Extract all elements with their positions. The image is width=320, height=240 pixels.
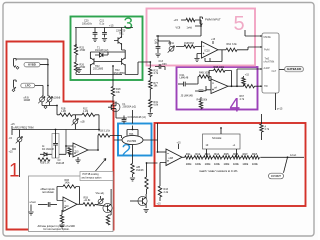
svg-text:KYBD: KYBD [28,63,36,67]
wire base stub [130,200,138,202]
svg-text:C15 1N4148 (x2): C15 1N4148 (x2) [128,116,147,119]
annotation box 4 (purple, shaper) [177,67,258,110]
svg-text:R18: R18 [252,152,257,156]
svg-text:MS/3E: MS/3E [264,36,272,39]
wire [132,174,134,177]
wire saw branch [237,69,261,86]
label R31 [154,101,159,107]
label R30 [154,82,159,88]
label vext [30,201,37,204]
label R9 [84,197,92,202]
wire pot merge [42,102,60,115]
diode D1 [95,53,108,57]
wire exit right [125,62,150,75]
wire cv tap [284,157,288,173]
label 4 [230,96,241,117]
svg-text:VC8: VC8 [176,26,181,29]
resistor R40 [260,124,270,132]
svg-text:R2B 1.5k: R2B 1.5k [40,162,50,164]
svg-text:+15: +15 [177,141,182,144]
wire pot feeds [42,96,50,97]
svg-text:2SC/5B3: 2SC/5B3 [127,141,137,143]
resistor R7 [60,210,63,224]
jack KYBD [14,59,19,70]
svg-text:PwM: PwM [264,48,269,51]
wire top entry [261,114,263,124]
wire +15 drop [276,93,283,110]
ground [44,106,47,109]
svg-text:+11.8k: +11.8k [84,200,92,202]
label FREQ TRIM [14,126,34,129]
resistor R9 [83,203,95,206]
resistor R10 [106,215,111,225]
resistor R25 [74,45,77,55]
label C15 [128,116,147,119]
wire collector [110,189,112,199]
label +15 [9,149,17,153]
svg-text:LM4148: LM4148 [180,77,189,80]
svg-text:OuT: OuT [272,70,277,73]
label 1 [9,161,20,182]
wire [176,46,202,48]
label R62 [199,71,210,74]
svg-text:100k: 100k [186,162,192,166]
wire aux [245,30,261,36]
wire [75,55,77,62]
resistor R5 [98,134,110,137]
svg-text:R1B 5.1/1k: R1B 5.1/1k [99,131,111,133]
wire down [19,152,21,177]
svg-text:not shown: not shown [42,190,55,194]
wire output [218,49,226,51]
svg-text:1: 1 [9,161,20,182]
svg-text:R17: R17 [243,152,248,156]
wire collector link [98,50,125,62]
svg-text:+15: +15 [174,18,179,22]
capacitor C40 [178,82,196,87]
potentiometer trim [72,115,85,130]
wire pwm drop [156,26,201,36]
wire output [77,203,83,205]
ground [102,39,107,42]
resistor R63b [214,69,226,72]
svg-text:4.7k: 4.7k [154,72,159,75]
resistor R43 [158,186,169,197]
svg-text:4.7k: 4.7k [265,128,270,131]
jack PWM input [200,17,202,26]
svg-text:470R: 470R [80,49,86,52]
svg-text:TRI: TRI [264,85,268,88]
label PWM INPUT [205,17,221,21]
option sub-box [29,176,114,232]
capacitor C13 [155,64,165,70]
transistor F1 jfet [108,102,120,114]
label IC11c [181,95,194,98]
label R63 [184,42,194,45]
wire feedback [205,50,222,62]
wire [149,89,151,100]
svg-text:LFO: LFO [25,84,30,88]
wire feedback [57,187,80,205]
wire +15 feed [174,18,187,22]
label R65 [197,98,208,101]
label offset note [41,187,56,194]
resistor R63 [184,45,195,48]
svg-text:R14: R14 [214,152,219,156]
svg-text:VR11: VR11 [168,42,175,45]
label R28 [116,88,121,94]
svg-text:R6B 100k: R6B 100k [214,66,225,69]
wire base link [90,52,125,55]
label TR1 [116,30,126,36]
svg-text:5: 5 [234,13,245,35]
capacitor C20 [93,28,98,38]
svg-text:CV OUT: CV OUT [271,174,281,178]
potentiometer VR1a [38,97,45,104]
label R63b [214,66,225,69]
capacitor C7B [156,36,161,53]
svg-text:100k: 100k [224,162,230,166]
pill GATE/LED [285,66,304,71]
resistor R2B [38,158,50,165]
resistor R17 [60,113,73,116]
label +15 node [11,123,16,130]
wire jfet to blue box [116,113,127,118]
svg-text:match “scale” resistors to 0.1: match “scale” resistors to 0.1% [199,169,238,173]
svg-text:uAuNT/8k: uAuNT/8k [264,60,275,63]
wire [73,114,83,116]
option label box [80,172,113,181]
jack LFO [12,80,16,92]
ground [76,67,81,73]
pill LFO [21,83,35,88]
capacitor C1B [48,202,57,207]
svg-text:Vbe adj.: Vbe adj. [96,192,105,195]
svg-text:1N4/48: 1N4/48 [136,170,144,172]
resistor R62 [196,75,211,84]
wire output [182,156,185,158]
op-amp IC11b [211,79,228,94]
label TR3 [113,69,125,75]
label R25 [80,46,86,52]
svg-text:3.3k: 3.3k [232,43,237,46]
wire +15 rail [75,24,133,28]
wire vr11 rail [158,41,170,46]
wire pair tail [132,145,134,164]
wire [157,197,162,205]
svg-text:100k: 100k [205,162,211,166]
wire minus in [66,130,73,147]
svg-text:uRR2 FREQ TRIM: uRR2 FREQ TRIM [14,126,34,129]
wire scale taps [207,128,237,157]
label MS/3E [264,36,272,39]
svg-text:100k: 100k [242,162,248,166]
resistor R66 [242,73,250,86]
pin [261,85,262,87]
label PWM [264,48,269,51]
svg-text:and tempco option: and tempco option [82,177,102,180]
svg-text:1N4148: 1N4148 [56,163,65,165]
potentiometer VR3 [97,196,104,205]
label D4 [42,146,54,151]
label 5 [234,13,245,35]
resistor R64 [226,43,237,52]
svg-text:1v/oct: 1v/oct [290,154,296,157]
wire lfo [35,86,43,97]
svg-text:+15: +15 [9,150,14,153]
wire from purple [132,110,134,124]
capacitor C1 boxed [52,134,59,159]
diode D4 [40,153,52,157]
annotation box 1 (red, expo converter) [7,42,114,230]
wire minus in [158,151,167,153]
annotation arrow [96,159,107,172]
label R48 [176,26,193,29]
label IC11 [180,74,189,80]
svg-text:+15: +15 [211,38,216,41]
label 2 [122,140,132,160]
panel connector box [262,33,279,93]
wire plus in [68,153,73,155]
resistor R8 [63,185,76,188]
ground [59,225,64,228]
op-amp IC1a [73,143,88,157]
wire [149,109,151,113]
svg-text:AuNP: AuNP [264,67,271,70]
label R67 [240,95,245,101]
resistor R3 [68,148,71,158]
wire [95,115,99,130]
wire main rail [12,129,99,131]
label C13 [159,60,164,63]
svg-text:100k: 100k [214,162,220,166]
label jumper note [38,224,76,231]
svg-text:y+15: y+15 [277,107,283,110]
label TR2 [93,65,104,71]
annotation box 3 (green, current source) [71,17,143,81]
label C7B [155,39,160,45]
resistor R48 [186,18,201,26]
svg-text:2: 2 [122,140,132,160]
potentiometer VR2 [16,130,23,153]
svg-text:R16: R16 [233,152,238,156]
wire input [38,204,48,206]
svg-text:2SC1685: 2SC1685 [93,68,104,71]
wire [261,132,263,140]
resistor R67 [244,85,255,88]
jack stub [28,205,33,216]
wire output [228,85,244,87]
svg-text:1n4d: 1n4d [187,26,193,29]
resistor R29 [149,68,152,76]
wire feedback [209,71,232,87]
pin [261,46,262,48]
svg-text:100kB: 100kB [24,100,31,102]
capacitor C21 [102,28,107,38]
resistors R11-R18 scale chain [185,156,260,159]
svg-text:2SK30A (x2): 2SK30A (x2) [123,106,137,109]
svg-text:100k: 100k [252,162,258,166]
wire divider chain [149,62,151,68]
svg-text:u100kB: u100kB [53,97,61,99]
label C63 [162,63,167,66]
label R26 [80,63,86,69]
svg-text:R13: R13 [205,152,210,156]
label +15 [211,38,216,44]
SCALE box [203,134,241,149]
label pots [24,97,61,102]
op-amp IC1b [63,197,77,212]
label R17 [61,109,66,114]
wire emitter chain [147,163,158,177]
svg-text:100k: 100k [195,162,201,166]
svg-text:IC10: IC10 [205,50,211,53]
svg-text:GATE/LED: GATE/LED [287,67,301,71]
capacitor C41 [195,86,206,92]
resistor R26 [74,62,77,72]
transistor TR2 [90,52,98,75]
op-amp IC12 [166,149,182,166]
label C3 [56,160,65,165]
svg-text:0.1u: 0.1u [100,22,105,25]
svg-text:D4 1N4148: D4 1N4148 [42,149,54,151]
ground [92,39,97,42]
wire plus in [160,163,166,171]
wire gate [279,69,285,71]
label R8 [65,180,71,185]
svg-text:100u/16v: 100u/16v [82,22,93,25]
svg-text:1M8 R63: 1M8 R63 [184,42,194,45]
svg-text:for non tempco option.: for non tempco option. [44,227,70,231]
wire to panel [237,47,261,50]
label TRI [264,85,268,88]
label TR6 [129,134,134,136]
svg-text:C63: C63 [162,63,167,66]
resistor R65 [199,97,202,110]
op-amp IC10 [202,42,219,59]
svg-text:470R: 470R [80,66,86,69]
annotation box 6 (red, scale network) [155,123,306,206]
pin [261,68,262,70]
svg-text:R15: R15 [224,152,229,156]
transistor TR3 [118,50,125,75]
label 3 [124,14,133,33]
wire [112,96,114,103]
resistor R31 [149,100,152,109]
ground [144,210,149,213]
transistor Q5 [138,194,147,208]
svg-text:uR.B: uR.B [24,97,30,99]
wire from green to JFET [112,66,114,87]
svg-text:R11: R11 [186,152,191,156]
resistor R28 [111,87,114,97]
svg-text:4.7k: 4.7k [240,98,245,101]
svg-text:PWM INPUT: PWM INPUT [205,17,221,21]
label C20 [82,20,93,26]
svg-text:uA: uA [214,87,217,90]
label R18b [83,109,88,114]
potentiometer VR11 [168,46,175,53]
resistor R20 [145,177,148,189]
label vbe [96,192,105,195]
svg-text:(2SC1685): (2SC1685) [113,72,125,75]
pin [261,35,262,37]
wire output [88,136,98,151]
label C21 [100,20,105,26]
annotation box 5 (pink, PWM) [147,9,256,66]
label +15 [177,141,182,149]
labels R11-R18 [186,152,258,156]
svg-text:R4B 100k: R4B 100k [197,98,208,101]
label VR11 [168,42,175,45]
wire plus chain [159,170,161,186]
label R5 [99,131,111,133]
wire pair sides [114,139,152,141]
capacitor C15 [122,116,127,124]
label AUNP [264,67,277,73]
wire to pair [110,136,122,139]
svg-text:u/1ext: u/1ext [30,201,37,204]
wire plus input [197,54,202,59]
transistor TR6 matched pair [122,135,143,144]
wire kybd [16,59,48,96]
pill KYBD [24,62,40,67]
values 100k x8 [186,162,259,166]
ground [194,59,199,62]
pill CV OUT [269,173,284,179]
potentiometer VR1b [46,97,53,104]
wire plus in [206,90,211,91]
annotation box 2 (blue, matched pair) [118,124,152,156]
label TWE [264,57,275,63]
svg-text:2.4k: 2.4k [164,191,169,194]
wire bottom rail [76,72,122,75]
svg-text:SCALE: SCALE [212,136,221,140]
svg-text:R12: R12 [195,152,200,156]
label D1 [95,46,108,52]
wire minus [57,200,63,202]
svg-text:+15: +15 [245,73,250,76]
wire left branch [75,28,77,46]
svg-text:uD8: uD8 [169,157,174,160]
wire [146,189,148,194]
svg-text:u1B: u1B [81,121,86,123]
wire [149,77,151,81]
resistor R18b [82,113,95,116]
wire tri out [255,85,261,87]
svg-text:100k: 100k [233,162,239,166]
label match note [199,169,238,173]
wire c1 links [56,130,67,155]
svg-text:J5 LM414B: J5 LM414B [181,95,194,98]
wire pair leads [127,126,138,136]
resistor R19 [131,164,144,175]
wire base [95,204,108,206]
ground [148,114,153,117]
svg-text:140k: 140k [65,182,71,184]
ground [130,178,135,181]
wire from pair [152,123,158,152]
svg-text:+15: +15 [109,24,114,28]
transistor Q6 [103,199,112,215]
resistor R30 [149,81,152,89]
svg-text:47u: 47u [155,42,160,45]
svg-text:u2B: u2B [136,167,141,169]
wire chain out [260,154,304,157]
label -15 [9,130,13,141]
svg-text:+15: +15 [157,202,162,205]
svg-text:R64: R64 [227,43,232,46]
